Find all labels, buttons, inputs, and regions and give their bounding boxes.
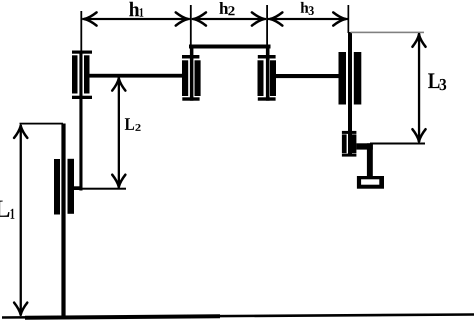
element E5 left sleeve [342,134,347,153]
extension line above element E4 [348,5,350,33]
element E3 left sleeve [258,60,264,96]
L1 arrowhead up [14,124,27,138]
dimension line h1 [82,18,190,20]
arrowhead h2 right [252,12,266,25]
element E2 right sleeve [195,60,201,96]
extension line above element E1 [80,11,82,51]
element E4 left plate [339,52,347,105]
element E1 top crossbar [72,51,92,54]
extension line above element E2 [190,5,192,45]
element E1 bottom crossbar [72,96,92,99]
label h2 [219,2,228,14]
element E3 bottom crossbar [258,97,276,100]
arrowhead h1 right [176,12,190,25]
element E4 center conductor [348,32,352,154]
element E5 top crossbar [342,131,357,134]
L3 top extension line [351,32,425,34]
feed port outer [357,176,384,189]
element E1 left sleeve [72,55,78,93]
top bridge wire E2 to E3 [189,45,271,49]
jog wire E1 line to E0 sleeve [74,186,83,190]
L1 arrowhead down [14,303,27,317]
L3 arrowhead down [412,129,425,143]
label h3 [301,2,309,13]
wire E3 to E4 [276,74,339,78]
L3 bottom extension line [370,143,425,145]
element E4 right plate [354,52,362,105]
element E3 right sleeve [270,60,276,96]
element E2 center conductor [190,45,194,101]
element E1 right sleeve [84,55,90,93]
wire E1 to E2 [90,74,183,78]
element E0 right sleeve [68,159,75,214]
L1 extension line [20,123,64,125]
dimension line h3 [268,18,348,20]
label L2 [125,118,134,130]
arrowhead h2 left [192,12,206,25]
arrowhead h3 left [269,12,283,25]
L2 extension line [83,188,127,190]
ground plane line [2,315,474,318]
element E2 bottom crossbar [182,97,199,100]
element E1 center conductor [79,51,82,191]
extension line above element E3 [266,5,268,45]
arrowhead h3 right [333,12,347,25]
feed port inner [361,179,379,184]
L3 arrowhead up [412,33,425,47]
element E2 left sleeve [182,60,188,96]
L2 arrowhead up [112,77,125,91]
label h1 [129,2,139,16]
L2 arrow shaft [118,78,120,188]
ground plane thick segment [25,316,220,318]
label L1 [0,201,9,217]
dimension line h2 [192,18,267,20]
element E0 left sleeve [54,159,60,215]
feed wire vertical [367,143,373,176]
L1 arrow shaft [20,125,22,315]
element E3 top crossbar [258,55,276,59]
mast conductor to ground [61,124,65,318]
label L3 [428,73,439,88]
element E2 top crossbar [182,55,199,59]
element E5 bottom crossbar [342,154,357,157]
arrowhead h1 left [83,12,97,25]
L2 arrowhead down [112,175,125,189]
element E3 center conductor [266,45,270,101]
feed wire horizontal [356,143,372,149]
L3 arrow shaft [418,33,420,142]
element E5 right sleeve [351,134,356,153]
